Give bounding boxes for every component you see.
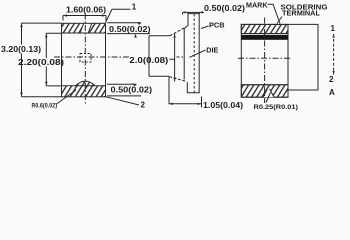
middle bracket lines [149, 36, 170, 76]
svg-text:0.50(0.02): 0.50(0.02) [111, 85, 153, 94]
dimension 0.50(0.02) middle top [183, 12, 205, 14]
leader R0.6 [57, 90, 77, 104]
leader DIE [190, 50, 206, 57]
leader R0.25 [266, 93, 271, 103]
right view horizontal centerline [238, 57, 290, 59]
svg-text:2: 2 [329, 75, 334, 84]
horizontal centerline [54, 56, 129, 58]
svg-text:1.05(0.04): 1.05(0.04) [203, 101, 243, 110]
leader MARK [268, 4, 281, 23]
left view top electrode hatch [62, 23, 106, 33]
svg-text:2: 2 [141, 101, 146, 110]
left view vertical centerline [84, 14, 86, 104]
svg-text:TERMINAL: TERMINAL [282, 11, 321, 18]
dimension 3.20(0.13) [22, 23, 62, 97]
right view vertical centerline [264, 18, 266, 104]
die hidden box [80, 54, 91, 63]
svg-text:R0.6(0.02): R0.6(0.02) [32, 103, 58, 110]
right dimension 1-2 dashed [333, 34, 335, 75]
middle view hidden line [193, 14, 195, 93]
dimension 2.0(0.08) line [169, 34, 174, 82]
dimension 1.60(0.06) [63, 16, 106, 21]
svg-text:2.0(0.08): 2.0(0.08) [129, 56, 168, 65]
right view mark bar [241, 35, 288, 40]
left view top electrode edges [62, 23, 106, 33]
left view bottom electrode edges [62, 85, 106, 87]
middle dash diagonal bottom [169, 77, 186, 82]
dimension 0.50(0.02) bottom right [107, 84, 141, 96]
leader PCB [201, 26, 209, 29]
leader pin 1 [106, 9, 131, 22]
svg-text:DIE: DIE [206, 47, 218, 54]
right view bottom terminal hatch [241, 85, 288, 97]
svg-text:1: 1 [132, 2, 137, 11]
middle dash diagonal [170, 28, 185, 36]
svg-text:R0.25(R0.01): R0.25(R0.01) [254, 104, 299, 111]
svg-text:A: A [329, 88, 335, 97]
svg-text:PCB: PCB [209, 23, 225, 30]
dome R0.6 [76, 81, 96, 86]
right view side plate [288, 24, 318, 90]
left view outline [62, 23, 106, 97]
svg-text:1.60(0.06): 1.60(0.06) [66, 6, 106, 15]
middle view outline [184, 14, 199, 93]
svg-text:0.50(0.02): 0.50(0.02) [204, 4, 245, 13]
right view notch [263, 89, 274, 97]
right view top terminal hatch [241, 24, 288, 33]
leader pin 2 [104, 96, 139, 105]
dimension 0.50(0.02) top right [107, 23, 150, 34]
leader SOLDERING TERMINAL [277, 17, 282, 24]
svg-text:0.50(0.02): 0.50(0.02) [109, 25, 151, 34]
right view body outline [241, 24, 288, 97]
svg-text:3.20(0.13): 3.20(0.13) [1, 45, 41, 54]
svg-text:2.20(0.08): 2.20(0.08) [18, 58, 64, 67]
middle centerline dashes [177, 56, 184, 58]
dimension 1.05(0.04) [169, 76, 202, 107]
svg-text:MARK: MARK [246, 2, 268, 9]
dimension 2.20(0.08) [46, 33, 61, 86]
left view bottom electrode hatch [62, 81, 106, 97]
svg-text:1: 1 [331, 24, 336, 33]
